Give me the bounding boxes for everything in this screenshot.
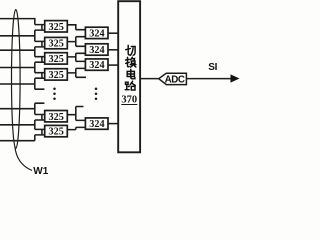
wire inputs box2 xyxy=(35,41,45,47)
svg-text:SI: SI xyxy=(208,62,217,73)
wire inputs 324#2 xyxy=(76,46,86,53)
char 切 xyxy=(126,45,135,55)
coil W1 xyxy=(12,10,21,149)
wire tap2 xyxy=(0,30,35,41)
svg-text:325: 325 xyxy=(49,112,64,123)
amplifier 325 box1 xyxy=(45,21,68,32)
W1 leader line xyxy=(15,146,32,171)
char 路 xyxy=(125,81,135,90)
wire tap4 xyxy=(0,62,35,72)
svg-text:325: 325 xyxy=(49,54,64,65)
svg-text:325: 325 xyxy=(49,70,64,81)
char 换 xyxy=(126,57,136,67)
amplifier 324 box3 xyxy=(85,59,108,70)
label 325 box1 xyxy=(49,22,138,138)
amplifier 325 box6 xyxy=(45,125,68,136)
wire tap1 xyxy=(0,19,35,25)
svg-text:325: 325 xyxy=(49,39,64,50)
wire inputs 324#4 xyxy=(76,120,86,127)
wire inputs box5 xyxy=(35,115,45,121)
wire inputs box1 xyxy=(35,25,45,31)
wire ADC output SI xyxy=(186,78,232,80)
amplifier 324 box2 xyxy=(85,44,108,55)
amplifier 325 box5 xyxy=(45,111,68,122)
amplifier 325 box3 xyxy=(45,53,68,64)
amplifier 325 box2 xyxy=(45,37,68,48)
arrow head SI xyxy=(231,74,240,82)
wire switch to ADC xyxy=(140,78,159,80)
svg-text:324: 324 xyxy=(89,60,104,71)
amplifier 324 box1 xyxy=(85,27,108,38)
wire inputs 324#3 xyxy=(76,61,86,68)
wire 325#1 output xyxy=(67,25,76,30)
ADC converter symbol xyxy=(159,73,187,84)
underline 370 xyxy=(121,104,137,106)
wire 325#6 output xyxy=(67,127,76,129)
svg-text:324: 324 xyxy=(89,45,104,56)
wire inputs box6 xyxy=(35,129,45,135)
wire inputs box3 xyxy=(35,57,45,63)
wire 325#3 output fork xyxy=(67,53,76,61)
dots left column xyxy=(53,87,56,100)
wire 324#2 to switch xyxy=(108,49,118,51)
svg-text:325: 325 xyxy=(49,127,64,138)
wire tap8 xyxy=(0,135,35,141)
wire tap5 xyxy=(0,78,44,89)
wire 325#5 output fork xyxy=(67,107,83,121)
amplifier 324 box4 xyxy=(85,118,108,129)
wire 324#3 to switch xyxy=(108,64,118,66)
wire inputs 324#1 xyxy=(76,30,86,37)
svg-text:324: 324 xyxy=(89,29,104,40)
wire 325#2 output fork xyxy=(67,37,76,47)
amplifier 325 box4 xyxy=(45,69,68,80)
svg-text:325: 325 xyxy=(49,22,64,33)
wire 324#1 to switch xyxy=(108,32,118,34)
wire tap6 xyxy=(0,103,44,114)
wire inputs box4 xyxy=(35,73,45,79)
dots right column xyxy=(95,87,98,100)
wire tap3 xyxy=(0,47,35,57)
switch circuit box 370 xyxy=(118,1,140,152)
char 电 xyxy=(127,69,135,78)
svg-text:324: 324 xyxy=(89,119,104,130)
svg-text:ADC: ADC xyxy=(165,75,185,86)
wire 325#4 output fork xyxy=(67,68,86,77)
wire 324#4 to switch xyxy=(108,123,118,125)
svg-text:W1: W1 xyxy=(33,166,48,176)
wire tap7 xyxy=(0,120,35,129)
